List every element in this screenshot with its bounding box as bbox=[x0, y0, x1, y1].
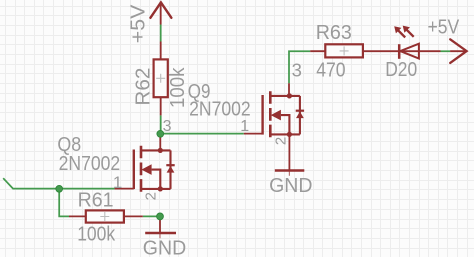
svg-text:1: 1 bbox=[240, 118, 249, 135]
svg-text:3: 3 bbox=[292, 60, 302, 81]
svg-text:+5V: +5V bbox=[428, 16, 460, 38]
svg-text:3: 3 bbox=[163, 118, 172, 135]
svg-text:2: 2 bbox=[143, 192, 160, 200]
svg-text:100k: 100k bbox=[77, 223, 116, 245]
svg-text:470: 470 bbox=[316, 60, 345, 82]
svg-text:D20: D20 bbox=[385, 59, 417, 81]
svg-text:R61: R61 bbox=[78, 189, 114, 211]
svg-text:GND: GND bbox=[143, 238, 186, 257]
svg-text:R62: R62 bbox=[133, 68, 155, 106]
svg-text:100k: 100k bbox=[167, 67, 189, 108]
svg-text:+5V: +5V bbox=[127, 4, 149, 43]
svg-text:GND: GND bbox=[269, 175, 312, 197]
svg-text:2N7002: 2N7002 bbox=[59, 153, 121, 175]
svg-text:1: 1 bbox=[113, 173, 122, 192]
svg-text:R63: R63 bbox=[316, 22, 352, 44]
svg-text:2: 2 bbox=[272, 137, 289, 145]
